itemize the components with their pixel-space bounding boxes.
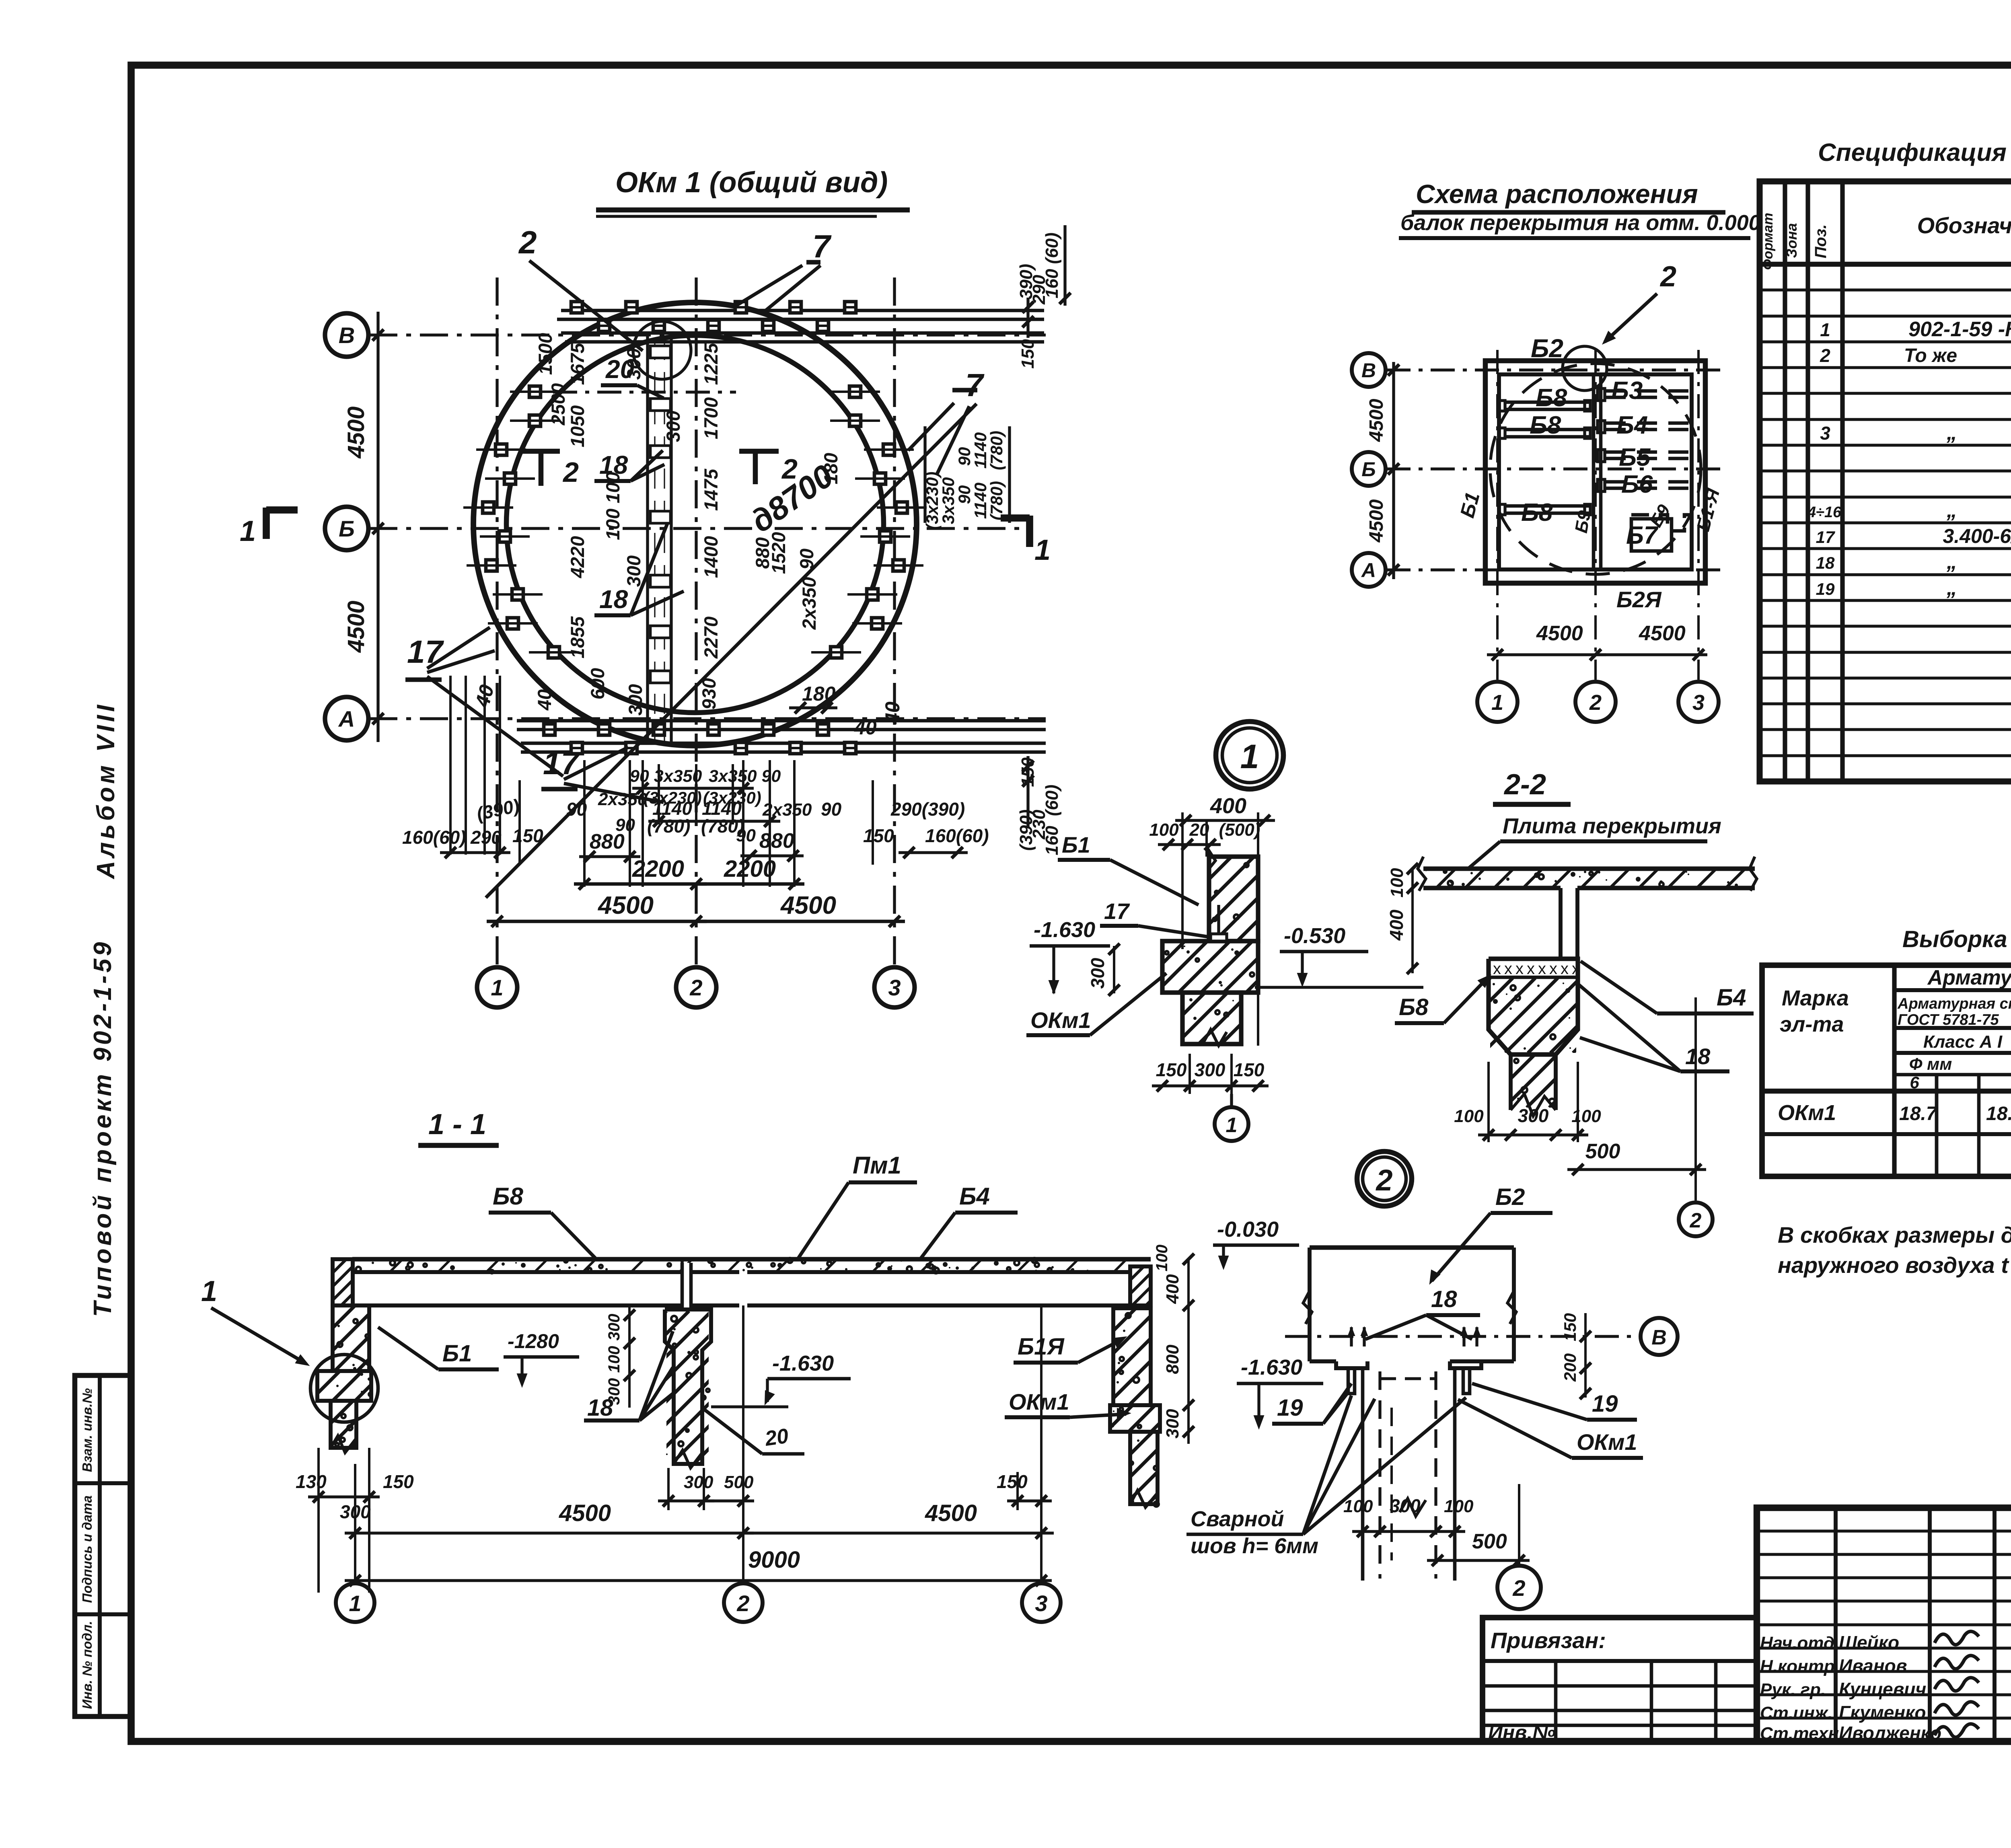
svg-text:В: В (339, 323, 355, 348)
svg-text:160: 160 (1042, 826, 1062, 855)
svg-text:-1.630: -1.630 (1241, 1355, 1302, 1379)
svg-text:Б: Б (1361, 458, 1376, 481)
svg-text:90: 90 (821, 799, 842, 820)
svg-text:150: 150 (1561, 1313, 1579, 1341)
section 2-2 axis circle 2 (1694, 997, 1697, 1200)
section 1-1 right rotated dims (1153, 1245, 1194, 1444)
svg-text:4500: 4500 (1366, 399, 1387, 442)
detail 1 anchor plate 17 (1211, 934, 1227, 941)
svg-text:А: А (338, 706, 355, 732)
svg-text:Н.контр: Н.контр (1760, 1657, 1835, 1676)
schema column axis 3 (1697, 350, 1700, 680)
svg-text:Шейко: Шейко (1839, 1632, 1899, 1653)
svg-text:4220: 4220 (567, 536, 588, 579)
column axis circle 2 (676, 967, 716, 1007)
svg-text:150: 150 (1234, 1059, 1265, 1080)
steel table data row (1778, 1101, 2011, 1125)
svg-text:Инв. № подл.: Инв. № подл. (80, 1621, 95, 1709)
svg-text:Привязан:: Привязан: (1491, 1628, 1606, 1653)
extension lines to bottom dims (450, 676, 873, 887)
svg-text:Б9: Б9 (1571, 509, 1595, 534)
svg-text:2: 2 (518, 224, 537, 260)
svg-text:40: 40 (534, 689, 555, 711)
svg-text:ОКм1: ОКм1 (1778, 1101, 1836, 1125)
steel table grid (1762, 965, 2011, 1176)
schema axis circle Б (1352, 452, 1386, 486)
svg-text:300: 300 (1195, 1059, 1226, 1080)
svg-text:300: 300 (1163, 1409, 1182, 1439)
bottom-left dim cluster (402, 795, 543, 858)
svg-text:100: 100 (1571, 1106, 1601, 1126)
svg-text:4500: 4500 (1536, 622, 1583, 645)
svg-text:Б6: Б6 (1621, 471, 1653, 498)
axis line А (369, 717, 1046, 720)
svg-text:x: x (1561, 960, 1569, 978)
section 2-2 slab (1408, 857, 1773, 891)
detail 2 axis line V (1285, 1335, 1641, 1338)
svg-text:1700: 1700 (700, 397, 722, 440)
svg-text:-0.030: -0.030 (1217, 1217, 1279, 1242)
svg-text:1050: 1050 (567, 405, 588, 448)
svg-text:2: 2 (689, 975, 702, 1000)
inner ring circle d8700 (506, 335, 884, 713)
upper plates centerline (553, 391, 736, 393)
svg-text:2: 2 (1375, 1163, 1392, 1197)
detail 1 marker circle (1216, 722, 1283, 789)
svg-text:3.400-6/76: 3.400-6/76 (1943, 525, 2011, 547)
title block left grid (1757, 1508, 2011, 1741)
svg-text:1: 1 (1226, 1114, 1238, 1137)
axis line Б (369, 527, 1024, 530)
svg-text:„: „ (1946, 421, 1957, 444)
svg-text:x: x (1549, 960, 1557, 978)
svg-text:930: 930 (698, 678, 720, 709)
svg-text:800: 800 (1163, 1344, 1182, 1374)
svg-text:17: 17 (407, 634, 444, 670)
svg-text:2x350: 2x350 (762, 800, 812, 820)
steel table headers (1780, 966, 2011, 1092)
svg-text:180: 180 (802, 682, 836, 705)
svg-text:160(60): 160(60) (402, 827, 466, 848)
svg-text:А: А (1361, 559, 1376, 582)
svg-text:17: 17 (1816, 528, 1835, 547)
schema axis line В (1386, 368, 1723, 371)
section 1-1 right wall B1A with OKm1 (1016, 1266, 1339, 1507)
section 1-1 beam stem at column (683, 1263, 691, 1309)
svg-text:150: 150 (997, 1471, 1028, 1492)
svg-text:1475: 1475 (700, 469, 722, 511)
svg-text:4500: 4500 (1639, 622, 1686, 645)
svg-text:100: 100 (1153, 1245, 1171, 1272)
svg-text:Взам. инв.№: Взам. инв.№ (80, 1388, 95, 1472)
svg-text:наружного воздуха t = -40°c: наружного воздуха t = -40°c (1778, 1252, 2011, 1278)
svg-text:-1280: -1280 (508, 1330, 559, 1353)
svg-text:19: 19 (1816, 580, 1835, 598)
svg-text:1: 1 (1240, 738, 1259, 775)
svg-text:3: 3 (888, 975, 901, 1000)
svg-text:Схема расположения: Схема расположения (1416, 179, 1698, 209)
section 1-1 joint circle (310, 1355, 378, 1422)
right rotated dim cluster (923, 426, 1010, 530)
column axis circle 3 (874, 967, 915, 1007)
svg-text:100: 100 (1387, 868, 1407, 898)
svg-text:Типовой проект 902-1-59: Типовой проект 902-1-59 (89, 939, 117, 1317)
privyazan box (1483, 1618, 1757, 1744)
svg-text:2: 2 (562, 456, 579, 488)
svg-text:x: x (1527, 960, 1535, 978)
svg-text:1855: 1855 (567, 616, 588, 658)
svg-text:300: 300 (1518, 1105, 1549, 1126)
svg-text:2200: 2200 (632, 856, 684, 882)
svg-text:20: 20 (763, 1424, 790, 1451)
svg-text:ОКм 1 (общий вид): ОКм 1 (общий вид) (615, 167, 888, 199)
diagonal leader d8700 (486, 404, 977, 898)
axis circle А (325, 697, 368, 740)
svg-text:В: В (1651, 1326, 1667, 1349)
svg-text:2270: 2270 (700, 617, 722, 659)
column axis circle 1 (477, 967, 517, 1007)
svg-text:1400: 1400 (700, 536, 722, 578)
svg-text:Б5: Б5 (1619, 444, 1651, 471)
svg-text:90: 90 (736, 826, 756, 845)
detail 1 lower wall section (1131, 993, 1340, 1046)
svg-text:40: 40 (881, 701, 904, 724)
svg-text:300: 300 (1087, 958, 1108, 989)
svg-text:90: 90 (796, 549, 817, 569)
svg-text:300: 300 (625, 684, 646, 715)
section 2-2 bottom dims (1454, 1062, 1601, 1142)
svg-text:1: 1 (491, 975, 503, 1000)
svg-text:Ф мм: Ф мм (1909, 1055, 1952, 1073)
detail 1 upper wall section (1125, 851, 1412, 941)
svg-text:40: 40 (854, 716, 877, 739)
svg-text:В: В (1361, 359, 1376, 382)
svg-text:(780): (780) (987, 431, 1006, 470)
detail 1 OKm1 ring section (1111, 941, 1343, 993)
svg-text:1675: 1675 (567, 343, 588, 385)
svg-text:3: 3 (1035, 1591, 1047, 1616)
svg-text:Б2Я: Б2Я (1616, 587, 1662, 612)
svg-text:ОКм1: ОКм1 (1009, 1389, 1069, 1414)
detail 1 bottom axis circle (1230, 1094, 1233, 1108)
svg-text:4÷16: 4÷16 (1807, 504, 1842, 521)
svg-text:1: 1 (201, 1275, 217, 1307)
embedded plates right arc (811, 386, 927, 658)
svg-text:1: 1 (1820, 319, 1830, 340)
svg-text:4500: 4500 (780, 892, 836, 919)
svg-text:290(390): 290(390) (890, 799, 965, 820)
svg-text:Инв.№: Инв.№ (1488, 1721, 1556, 1744)
svg-text:Б2: Б2 (1495, 1184, 1525, 1210)
svg-text:300: 300 (623, 348, 644, 380)
embedded plates left arc (463, 386, 579, 658)
detail 2 slab outline (1303, 1248, 1516, 1361)
svg-text:100: 100 (605, 1346, 623, 1373)
svg-text:Б4: Б4 (1616, 411, 1648, 439)
left stamp strip (inv/sign table) (75, 1375, 131, 1716)
embedded plates on top beams (571, 302, 856, 331)
svg-text:4500: 4500 (559, 1500, 611, 1526)
svg-text:2x350: 2x350 (798, 577, 820, 630)
svg-text:Б8: Б8 (1530, 411, 1561, 439)
svg-text:Б8: Б8 (1536, 384, 1567, 412)
schema column axis 1 (1496, 350, 1499, 680)
detail 2 bottom dims (1343, 1495, 1474, 1537)
svg-text:Выборка стали на один элемент,: Выборка стали на один элемент, кг (1902, 926, 2011, 952)
detail 2 anchor studs (1348, 1327, 1480, 1346)
schema left dim 4500x2 (1392, 362, 1395, 579)
svg-text:Обозначение: Обозначение (1917, 213, 2011, 238)
svg-text:Б4: Б4 (959, 1183, 990, 1210)
svg-text:300: 300 (623, 555, 644, 587)
svg-text:100: 100 (1444, 1496, 1474, 1516)
svg-text:1 - 1: 1 - 1 (428, 1108, 486, 1141)
svg-text:18: 18 (599, 585, 628, 614)
column axis 3 vertical (893, 278, 896, 967)
svg-text:„: „ (1946, 499, 1957, 522)
svg-text:1225: 1225 (700, 343, 722, 385)
svg-text:4500: 4500 (925, 1500, 977, 1526)
section 1-1 slab Pm1 (341, 1258, 1151, 1273)
section mark 1 left (263, 508, 270, 539)
schema column circle 2 (1575, 682, 1616, 722)
svg-text:90: 90 (566, 799, 587, 820)
svg-text:3: 3 (1820, 423, 1830, 444)
svg-text:То же: То же (1904, 345, 1957, 366)
svg-text:19: 19 (1592, 1391, 1618, 1417)
schema axis circle А (1352, 553, 1386, 587)
svg-text:Б2: Б2 (1531, 334, 1563, 363)
svg-text:9000: 9000 (748, 1547, 800, 1573)
section 1-1 mid support at axis 2 (516, 1309, 1004, 1468)
svg-text:150: 150 (512, 825, 543, 846)
axis line В (369, 333, 1046, 336)
svg-text:1500: 1500 (535, 333, 556, 375)
column axis 2 vertical (695, 278, 697, 967)
svg-text:400: 400 (1210, 794, 1246, 818)
column axis 1 vertical (496, 278, 498, 967)
svg-text:Нач.отд.: Нач.отд. (1760, 1633, 1839, 1653)
svg-text:1: 1 (240, 515, 256, 547)
svg-text:Альбом VIII: Альбом VIII (92, 702, 120, 880)
section mark 2 left (522, 449, 560, 454)
schema detail circle on top edge (1563, 346, 1607, 391)
svg-text:90: 90 (955, 447, 974, 466)
svg-text:600: 600 (587, 668, 608, 699)
section 1-1 bottom dims (296, 1448, 1054, 1593)
bottom dimension text block (566, 767, 842, 862)
svg-text:300: 300 (684, 1472, 714, 1492)
schema axis line А (1386, 568, 1723, 571)
schema dashed ring circle (1490, 364, 1701, 574)
left dim line 4500+4500 (376, 312, 379, 742)
svg-text:шов h= 6мм: шов h= 6мм (1191, 1534, 1318, 1558)
svg-text:290: 290 (470, 827, 502, 848)
svg-text:7: 7 (965, 367, 985, 403)
schema outer square (1485, 361, 1705, 583)
embedded plates on bottom beams (544, 724, 856, 754)
section mark 2 right (739, 449, 779, 454)
svg-text:100: 100 (1454, 1106, 1484, 1126)
svg-text:4500: 4500 (597, 892, 654, 919)
svg-text:4500: 4500 (343, 600, 369, 653)
svg-text:150: 150 (1156, 1059, 1187, 1080)
schema column circle 3 (1678, 682, 1719, 722)
top-right rotated dims (1016, 225, 1071, 369)
section 1-1 left wall B1 with OKm1 joint (267, 1259, 490, 1453)
svg-text:Б3: Б3 (1611, 377, 1643, 405)
svg-text:1: 1 (1034, 534, 1051, 566)
svg-text:Поз.: Поз. (1812, 224, 1830, 259)
svg-text:Класс А I: Класс А I (1923, 1032, 2003, 1052)
svg-text:-0.530: -0.530 (1284, 924, 1345, 948)
schema beams (1499, 374, 1693, 569)
svg-text:эл-та: эл-та (1780, 1012, 1844, 1036)
svg-text:18.7: 18.7 (1986, 1103, 2011, 1124)
svg-text:400: 400 (1386, 909, 1407, 941)
svg-text:Арматурная сталь: Арматурная сталь (1897, 995, 2011, 1012)
axis circle В (325, 313, 368, 357)
detail 2 OKm1 wall below (1363, 1368, 1455, 1581)
svg-text:300: 300 (605, 1314, 623, 1341)
top beam lines (561, 309, 1044, 312)
schema column circle 1 (1477, 682, 1518, 722)
svg-text:500: 500 (1472, 1530, 1507, 1553)
bottom beam lines (517, 719, 1046, 723)
plates along central beam (650, 346, 670, 683)
title block outline (1757, 1508, 2011, 1741)
detail 1 top dims (1149, 794, 1275, 1046)
svg-text:2: 2 (736, 1591, 749, 1616)
svg-text:18.7: 18.7 (1899, 1103, 1938, 1124)
svg-text:Кунцевич: Кунцевич (1839, 1679, 1926, 1700)
svg-text:200: 200 (1561, 1353, 1579, 1382)
svg-text:-1.630: -1.630 (1034, 918, 1095, 942)
svg-text:100: 100 (1149, 820, 1179, 840)
svg-text:300: 300 (1390, 1495, 1421, 1516)
svg-text:160 (60): 160 (60) (1042, 232, 1062, 298)
svg-text:500: 500 (724, 1472, 754, 1492)
svg-text:2200: 2200 (724, 856, 776, 882)
svg-text:Б7: Б7 (1626, 522, 1659, 549)
svg-text:1: 1 (349, 1591, 361, 1616)
svg-text:(780): (780) (987, 481, 1006, 520)
detail 2 marker circle (1357, 1151, 1412, 1206)
title block signatures (1760, 1631, 1979, 1743)
schema inner square (1499, 374, 1692, 569)
section mark 1 right (1026, 516, 1033, 547)
svg-text:Подпись и дата: Подпись и дата (80, 1495, 95, 1603)
svg-text:-1.630: -1.630 (772, 1351, 834, 1375)
svg-text:500: 500 (1585, 1140, 1620, 1163)
section 1-1 beam soffit (352, 1303, 739, 1307)
svg-text:2: 2 (1690, 1209, 1702, 1232)
svg-text:17: 17 (1104, 898, 1130, 924)
section 2-2 beam stem (1559, 888, 1563, 959)
svg-text:Б4: Б4 (1717, 985, 1746, 1011)
svg-text:Б: Б (339, 516, 355, 541)
svg-text:x: x (1515, 960, 1524, 978)
section 1-1 axis circle 1 (354, 1464, 356, 1583)
svg-text:18: 18 (1431, 1286, 1457, 1312)
schema axis line Б (1386, 467, 1723, 470)
svg-text:В скобках размеры для расчетно: В скобках размеры для расчетной температ… (1778, 1222, 2011, 1248)
svg-text:902-1-59 -КЖ- 12: 902-1-59 -КЖ- 12 (1908, 318, 2011, 341)
spec table grid (1760, 181, 2011, 781)
svg-text:4500: 4500 (1366, 499, 1387, 543)
svg-text:2: 2 (1820, 345, 1830, 366)
svg-text:Марка: Марка (1782, 986, 1849, 1010)
svg-text:880: 880 (759, 829, 794, 853)
svg-text:ГОСТ 5781-75: ГОСТ 5781-75 (1898, 1011, 1999, 1028)
svg-text:Ст.инж.: Ст.инж. (1760, 1703, 1833, 1723)
svg-text:150: 150 (863, 825, 894, 846)
svg-text:180: 180 (820, 453, 841, 484)
svg-text:Плита перекрытия: Плита перекрытия (1503, 814, 1721, 838)
central beam hidden lines (646, 336, 649, 745)
svg-text:x: x (1504, 960, 1512, 978)
svg-text:Б1: Б1 (442, 1340, 472, 1367)
svg-text:Гкуменко: Гкуменко (1839, 1702, 1926, 1723)
bottom-right dim cluster (863, 799, 989, 858)
svg-text:130: 130 (296, 1471, 327, 1492)
svg-text:x: x (1493, 960, 1501, 978)
svg-text:2500: 2500 (547, 383, 569, 426)
svg-text:2: 2 (1589, 691, 1602, 715)
svg-text:Б8: Б8 (493, 1183, 523, 1210)
svg-text:2: 2 (1659, 261, 1676, 293)
spec table contents (1807, 261, 2011, 759)
svg-text:300: 300 (605, 1378, 623, 1405)
plate detail circle marker (633, 321, 691, 379)
svg-text:150: 150 (383, 1471, 414, 1492)
svg-text:880: 880 (752, 537, 773, 569)
svg-text:Зона: Зона (1783, 223, 1800, 258)
schema axis circle В (1352, 353, 1386, 387)
schema column axis 2 (1594, 350, 1597, 680)
svg-text:7: 7 (812, 228, 832, 264)
svg-text:Пм1: Пм1 (853, 1152, 901, 1179)
svg-text:(60): (60) (1042, 785, 1062, 816)
svg-text:150: 150 (1018, 339, 1038, 369)
section 1-1 axis circle 3 (1040, 1305, 1043, 1583)
svg-text:18: 18 (1816, 553, 1835, 572)
section 2-2 beam B4 with OKm1 (1415, 959, 1715, 1116)
svg-text:(500): (500) (1219, 820, 1260, 840)
svg-text:Рук. гр.: Рук. гр. (1760, 1680, 1826, 1700)
axis circle Б (325, 507, 368, 550)
svg-text:160(60): 160(60) (925, 825, 989, 846)
bottom-right rotated dims (1016, 756, 1062, 855)
detail 2 angle plates 19 (1336, 1361, 1481, 1394)
svg-text:300: 300 (662, 411, 684, 442)
svg-text:Арматурные изделия: Арматурные изделия (1927, 966, 2011, 989)
svg-text:x: x (1538, 960, 1546, 978)
svg-text:ОКм1: ОКм1 (1577, 1429, 1637, 1455)
svg-text:3: 3 (1692, 691, 1705, 715)
svg-text:1: 1 (1491, 691, 1503, 715)
svg-text:2-2: 2-2 (1503, 769, 1546, 801)
svg-text:Сварной: Сварной (1191, 1507, 1284, 1531)
svg-text:Б8: Б8 (1521, 499, 1553, 526)
svg-text:Ст.техн: Ст.техн (1760, 1724, 1839, 1743)
svg-text:4500: 4500 (343, 406, 369, 458)
svg-text:18: 18 (1685, 1044, 1711, 1069)
svg-text:„: „ (1946, 576, 1957, 600)
svg-text:6: 6 (1910, 1073, 1919, 1092)
section 1-1 axis circle 2 (742, 1305, 744, 1583)
svg-text:3x350 90: 3x350 90 (709, 767, 781, 786)
